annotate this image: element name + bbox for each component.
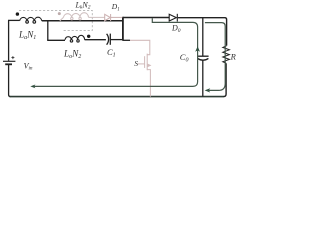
wire: left border upper (Vin + to top-left corner) <box>8 20 10 60</box>
polarity dot winding 1 <box>16 12 19 15</box>
wire: C0 branch bottom <box>202 60 204 96</box>
wire: drop from row1 to row2 <box>47 21 49 40</box>
wire: top row 1 left stub to winding La <box>8 19 20 21</box>
green current line B (load loop) <box>205 23 225 91</box>
wire: top rail to D0 <box>123 17 169 19</box>
diode D0 <box>169 14 177 22</box>
wire: below R zigzag to bottom right corner <box>224 63 227 96</box>
wire: row 2 to winding <box>47 39 65 41</box>
wire: node to mosfet drain (black part) <box>122 39 130 41</box>
polarity dot winding 2 <box>87 35 90 38</box>
arrowhead up (loop A) <box>195 46 200 51</box>
capacitor C0 (output) <box>197 56 208 60</box>
wire: C0 branch top <box>202 18 204 56</box>
dashed coupled-inductor boundary box <box>19 10 92 30</box>
svg-text:R: R <box>230 52 237 62</box>
inductor winding Lk N2 (inactive, gray) <box>60 13 105 21</box>
svg-text:S: S <box>134 59 138 68</box>
wire: winding2 to C1 <box>85 39 106 41</box>
gray polarity dot <box>58 12 61 15</box>
wire: left border lower (Vin - to bottom-left corner) <box>9 65 11 97</box>
arrowhead left (line B) <box>205 88 211 92</box>
arrowhead left (loop A) <box>30 85 35 89</box>
inductor winding La N1 (primary) <box>20 17 42 23</box>
wire: bottom rail <box>10 96 224 98</box>
capacitor C1 <box>107 34 111 45</box>
node A junction column <box>122 17 124 40</box>
diode D1 (inactive, gray) <box>105 14 123 21</box>
resistor R <box>223 46 230 63</box>
transistor switch S (MOSFET, inactive) <box>130 40 150 96</box>
inductor winding Lo N2 (secondary) <box>65 35 85 42</box>
wire: D0 cathode to top-right corner and down to resistor R <box>178 18 227 46</box>
wire: winding La to node A column <box>42 20 123 22</box>
wire: C1 to node column <box>110 39 123 41</box>
voltage source Vin (battery) <box>3 56 15 64</box>
green current loop A (main) <box>34 18 198 86</box>
